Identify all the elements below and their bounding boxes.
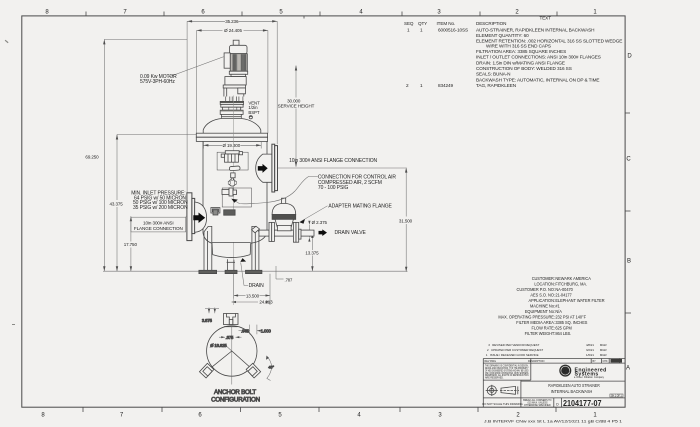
svg-text:INLET / OUTLET CONNECTIONS: AN: INLET / OUTLET CONNECTIONS: ANSI 10in 30… bbox=[476, 55, 601, 60]
svg-text:575V-3PH-60Hz: 575V-3PH-60Hz bbox=[140, 79, 175, 85]
svg-text:17.750: 17.750 bbox=[124, 242, 138, 247]
svg-text:MGR: MGR bbox=[600, 353, 608, 357]
svg-text:SH 1 OF 1: SH 1 OF 1 bbox=[611, 395, 623, 397]
svg-text:4/8/21: 4/8/21 bbox=[586, 343, 594, 347]
svg-text:2104177-07: 2104177-07 bbox=[563, 399, 602, 408]
svg-text:Ø 2.375: Ø 2.375 bbox=[312, 220, 328, 225]
svg-text:69.250: 69.250 bbox=[85, 154, 99, 159]
svg-text:AUTO-STRAINER, RAPIDKLEEN INTE: AUTO-STRAINER, RAPIDKLEEN INTERNAL BACKW… bbox=[476, 27, 594, 32]
svg-text:ADAPTER MATING FLANGE: ADAPTER MATING FLANGE bbox=[328, 203, 392, 209]
svg-text:70 - 100 PSIG: 70 - 100 PSIG bbox=[318, 185, 349, 191]
svg-text:RAPIDKLEEN AUTO STRAINER: RAPIDKLEEN AUTO STRAINER bbox=[548, 383, 600, 388]
svg-text:CHK: CHK bbox=[603, 360, 608, 363]
svg-text:ITEM No.: ITEM No. bbox=[437, 21, 456, 26]
svg-text:OTHERWISE SPECIFIED: OTHERWISE SPECIFIED bbox=[524, 405, 551, 407]
svg-text:SEQ: SEQ bbox=[404, 21, 414, 26]
svg-text:QTY: QTY bbox=[418, 21, 427, 26]
svg-text:B: B bbox=[627, 259, 631, 265]
svg-text:DRAIN: 1.5in DIN w/MATING ANSI: DRAIN: 1.5in DIN w/MATING ANSI FLANGE bbox=[476, 60, 565, 65]
svg-text:45°: 45° bbox=[268, 365, 274, 370]
svg-text:3.875: 3.875 bbox=[202, 318, 213, 323]
svg-text:SERVICE HEIGHT: SERVICE HEIGHT bbox=[278, 103, 315, 108]
svg-text:REV DWG: REV DWG bbox=[485, 360, 497, 363]
svg-text:6000516-10SS: 6000516-10SS bbox=[438, 27, 468, 32]
svg-text:DO NOT SCALE THIS DRAWING: DO NOT SCALE THIS DRAWING bbox=[482, 402, 522, 406]
svg-text:BSPT: BSPT bbox=[248, 110, 259, 115]
svg-text:864 LBS.: 864 LBS. bbox=[555, 331, 571, 336]
svg-text:MGR: MGR bbox=[600, 343, 608, 347]
svg-text:.945: .945 bbox=[241, 328, 250, 333]
svg-text:A: A bbox=[626, 366, 630, 372]
svg-text:DESCRIPTION: DESCRIPTION bbox=[528, 360, 545, 363]
svg-text:CONFIGURATION: CONFIGURATION bbox=[211, 396, 260, 403]
svg-text:1.000: 1.000 bbox=[261, 328, 272, 333]
svg-text:AES: AES bbox=[561, 368, 570, 373]
svg-text:TAG, RAPIDKLEEN: TAG, RAPIDKLEEN bbox=[476, 83, 516, 88]
svg-text:2 UPDATED PER CUSTOMER REQUE: 2 UPDATED PER CUSTOMER REQUEST bbox=[487, 348, 543, 352]
svg-text:SEALS: BUNA-N: SEALS: BUNA-N bbox=[476, 72, 510, 77]
svg-text:.787: .787 bbox=[285, 277, 294, 282]
svg-text:Ø 24.405: Ø 24.405 bbox=[224, 28, 242, 33]
svg-text:FILTER WEIGHT:: FILTER WEIGHT: bbox=[525, 331, 555, 336]
svg-text:INTERNAL BACKWASH: INTERNAL BACKWASH bbox=[551, 389, 593, 394]
svg-text:ANCHOR BOLT: ANCHOR BOLT bbox=[214, 389, 256, 396]
svg-text:1/6/21: 1/6/21 bbox=[586, 353, 594, 357]
svg-text:Ø 19.300: Ø 19.300 bbox=[222, 143, 240, 148]
svg-text:10in 300# ANSI FLANGE CONNECTI: 10in 300# ANSI FLANGE CONNECTION bbox=[289, 158, 377, 164]
svg-text:1 ISSUE / RECEIVED GOOD SERV: 1 ISSUE / RECEIVED GOOD SERVICE bbox=[486, 353, 539, 357]
svg-text:ELEPHANT WATER FILTER: ELEPHANT WATER FILTER bbox=[555, 298, 604, 303]
svg-text:24.213: 24.213 bbox=[259, 299, 273, 304]
svg-text:DRAIN: DRAIN bbox=[249, 283, 265, 289]
svg-text:WIRE WITH 316 SS END CAPS: WIRE WITH 316 SS END CAPS bbox=[486, 44, 551, 49]
svg-text:DRAIN VALVE: DRAIN VALVE bbox=[335, 230, 367, 236]
svg-text:C: C bbox=[626, 157, 631, 163]
svg-text:a Dover Filtration Company: a Dover Filtration Company bbox=[574, 376, 605, 379]
svg-text:TEXT: TEXT bbox=[540, 16, 552, 21]
svg-text:MGR: MGR bbox=[600, 348, 608, 352]
svg-text:BACKWASH TYPE: AUTOMATIC, INTE: BACKWASH TYPE: AUTOMATIC, INTERNAL ON DP… bbox=[476, 77, 599, 82]
svg-text:43.375: 43.375 bbox=[110, 201, 124, 206]
svg-text:13.375: 13.375 bbox=[305, 251, 319, 256]
svg-text:35 PSIG w/ 200 MICRON: 35 PSIG w/ 200 MICRON bbox=[133, 205, 188, 211]
svg-text:DESCRIPTION: DESCRIPTION bbox=[476, 21, 506, 26]
svg-text:D: D bbox=[627, 54, 632, 60]
svg-text:35.236: 35.236 bbox=[225, 19, 239, 24]
svg-text:3/2/21: 3/2/21 bbox=[586, 348, 594, 352]
svg-text:10in 300# ANSI: 10in 300# ANSI bbox=[143, 220, 174, 225]
svg-text:834249: 834249 bbox=[438, 83, 454, 88]
svg-text:J.B INTERVF CNw xxx St L 1a AV: J.B INTERVF CNw xxx St L 1a AV/12/1021 1… bbox=[484, 420, 622, 424]
svg-text:.875: .875 bbox=[226, 335, 235, 340]
svg-text:FILTRATION AREA: 3385 SQUARE I: FILTRATION AREA: 3385 SQUARE INCHES bbox=[476, 49, 566, 54]
svg-text:31.500: 31.500 bbox=[399, 218, 413, 223]
svg-text:BY: BY bbox=[593, 360, 597, 363]
svg-text:ARE RESERVED.: ARE RESERVED. bbox=[485, 377, 504, 380]
svg-text:Ø 18.625: Ø 18.625 bbox=[210, 343, 227, 348]
svg-text:FLANGE CONNECTION: FLANGE CONNECTION bbox=[134, 226, 183, 231]
svg-text:3 REVISED PER VENDOR REQUEST: 3 REVISED PER VENDOR REQUEST bbox=[488, 343, 539, 347]
svg-text:CONSTRUCTION OF BODY: WELDED 3: CONSTRUCTION OF BODY: WELDED 316 SS bbox=[476, 66, 572, 71]
svg-text:ELEMENT QUANTITY: 60: ELEMENT QUANTITY: 60 bbox=[476, 33, 529, 38]
svg-text:13.500: 13.500 bbox=[246, 294, 260, 299]
